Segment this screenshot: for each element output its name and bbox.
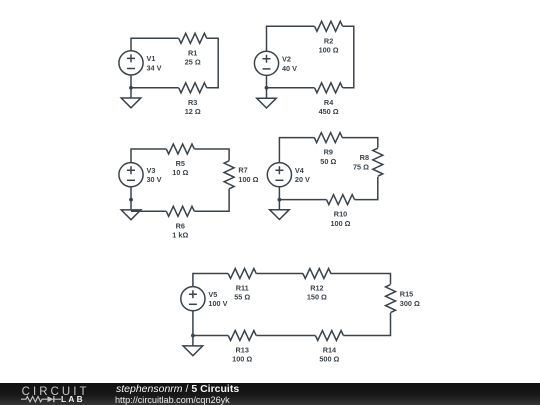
wire R10 to node D: [279, 199, 326, 201]
svg-text:100 Ω: 100 Ω: [232, 355, 252, 364]
wire V3 top to R5: [131, 149, 166, 163]
svg-text:R7: R7: [238, 166, 247, 175]
resistor R5: [166, 144, 194, 177]
svg-text:20 V: 20 V: [295, 175, 310, 184]
wire V5 to ground: [192, 311, 194, 346]
node D junction: [278, 198, 282, 202]
resistor R4: [315, 83, 343, 116]
svg-text:R15: R15: [400, 289, 413, 298]
footer bar: [0, 383, 540, 405]
footer text: [116, 383, 239, 395]
wire V4 to ground: [278, 187, 280, 210]
svg-text:55 Ω: 55 Ω: [234, 293, 250, 302]
wire R1 to R3 right side: [207, 38, 219, 88]
resistor R3: [179, 83, 207, 116]
wire R7 to R6: [194, 189, 229, 211]
CircuitLab logo: [18, 383, 118, 405]
svg-text:LAB: LAB: [61, 394, 85, 404]
node E junction: [191, 334, 195, 338]
wire R15 to R14: [344, 313, 391, 336]
resistor R2: [315, 21, 343, 54]
wire V2 to ground: [266, 75, 268, 98]
svg-text:V3: V3: [147, 166, 156, 175]
svg-text:V5: V5: [208, 290, 217, 299]
wire V2 top to R2: [267, 26, 315, 51]
wire R2 to R4 right side: [343, 26, 354, 88]
svg-text:100 Ω: 100 Ω: [319, 46, 339, 55]
ground: [257, 98, 277, 108]
wire V1 to ground: [130, 75, 132, 98]
wire R3 to node A: [131, 87, 179, 89]
resistor R13: [228, 331, 256, 364]
svg-text:R3: R3: [188, 98, 197, 107]
svg-text:500 Ω: 500 Ω: [319, 355, 339, 364]
svg-text:R13: R13: [236, 346, 249, 355]
svg-text:100 V: 100 V: [208, 299, 227, 308]
resistor R12: [303, 269, 331, 302]
svg-text:300 Ω: 300 Ω: [400, 299, 420, 308]
svg-text:R4: R4: [324, 98, 334, 107]
resistor R8: [353, 148, 383, 176]
voltage source V5: [181, 287, 228, 311]
svg-text:R12: R12: [310, 284, 323, 293]
svg-text:R9: R9: [324, 148, 333, 157]
resistor R7: [224, 161, 259, 189]
svg-text:R14: R14: [323, 346, 337, 355]
resistor R1: [179, 33, 207, 66]
svg-text:1 kΩ: 1 kΩ: [172, 231, 188, 240]
wire R12 to R15: [331, 274, 391, 285]
resistor R11: [228, 269, 256, 302]
voltage source V4: [267, 163, 310, 187]
wire R5 to R7: [194, 149, 229, 161]
ground: [183, 346, 203, 356]
ground: [270, 210, 290, 220]
wire V1 top to R1: [131, 38, 179, 51]
voltage source V3: [119, 163, 162, 187]
resistor R9: [314, 133, 342, 166]
wire V4 top to R9: [279, 138, 314, 163]
node C junction: [129, 198, 133, 202]
svg-text:V1: V1: [147, 54, 156, 63]
svg-text:25 Ω: 25 Ω: [185, 58, 201, 67]
svg-text:150 Ω: 150 Ω: [307, 293, 327, 302]
node A junction: [129, 86, 133, 90]
resistor R10: [327, 195, 355, 228]
wire R8 to R10: [355, 177, 378, 200]
svg-text:30 V: 30 V: [147, 175, 162, 184]
svg-text:R11: R11: [236, 284, 249, 293]
svg-text:R2: R2: [324, 36, 333, 45]
resistor R15: [386, 285, 421, 313]
wire R13 to node E: [193, 335, 228, 337]
ground: [121, 210, 141, 220]
resistor R14: [315, 331, 343, 364]
svg-text:40 V: 40 V: [282, 64, 297, 73]
svg-text:R1: R1: [188, 48, 197, 57]
svg-text:100 Ω: 100 Ω: [330, 219, 350, 228]
wire R6 to ground node: [131, 210, 166, 212]
node B junction: [265, 86, 269, 90]
voltage source V2: [254, 51, 297, 75]
wire V3 to ground: [130, 187, 132, 210]
svg-text:34 V: 34 V: [147, 63, 162, 72]
svg-text:R8: R8: [360, 153, 369, 162]
svg-text:100 Ω: 100 Ω: [238, 175, 258, 184]
svg-text:R5: R5: [176, 159, 185, 168]
wire R14 to R13: [256, 335, 315, 337]
svg-text:V4: V4: [295, 166, 305, 175]
voltage source V1: [119, 51, 162, 75]
svg-text:12 Ω: 12 Ω: [185, 107, 201, 116]
svg-text:450 Ω: 450 Ω: [319, 107, 339, 116]
svg-text:50 Ω: 50 Ω: [320, 157, 336, 166]
svg-text:R6: R6: [176, 221, 185, 230]
ground: [121, 98, 141, 108]
svg-text:10 Ω: 10 Ω: [172, 168, 188, 177]
wire R4 to node B: [267, 87, 315, 89]
svg-text:75 Ω: 75 Ω: [353, 163, 369, 172]
resistor R6: [166, 206, 194, 239]
wire V5 top to R11: [193, 274, 228, 287]
svg-text:R10: R10: [334, 210, 347, 219]
wire R11 to R12: [256, 273, 303, 275]
svg-text:V2: V2: [282, 54, 291, 63]
wire R9 to R8: [342, 138, 378, 148]
